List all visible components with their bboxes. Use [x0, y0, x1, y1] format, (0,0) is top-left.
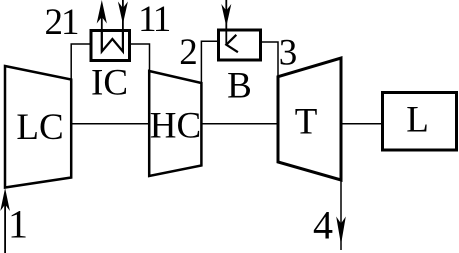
burner nozzle mark — [226, 35, 238, 52]
svg-text:2: 2 — [179, 32, 198, 73]
IC water out arrow (21) — [101, 14, 103, 51]
fuel arrow into B — [225, 0, 227, 29]
wire IC to HC — [131, 44, 150, 71]
shaft wire T-L — [341, 123, 381, 125]
svg-text:B: B — [227, 66, 252, 107]
IC coil W — [102, 31, 123, 52]
turbine T — [278, 58, 341, 180]
svg-text:1: 1 — [8, 202, 28, 247]
svg-text:HC: HC — [150, 106, 201, 147]
load L box — [383, 93, 457, 151]
svg-text:4: 4 — [313, 203, 333, 248]
svg-text:IC: IC — [91, 63, 128, 104]
wire B to T (3) — [262, 42, 278, 77]
compressor HC — [149, 71, 201, 176]
shaft wire LC-HC — [71, 123, 149, 125]
compressor LC — [5, 66, 71, 188]
inlet arrow 1 — [4, 200, 6, 253]
IC water in arrow (11) — [122, 0, 124, 51]
intercooler IC box — [91, 31, 130, 61]
svg-text:11: 11 — [138, 0, 170, 40]
wire LC to IC — [71, 44, 89, 80]
svg-text:LC: LC — [16, 107, 63, 148]
svg-text:3: 3 — [279, 33, 298, 74]
burner B box — [219, 30, 261, 60]
exhaust wire 4 — [340, 180, 342, 250]
svg-text:L: L — [406, 100, 429, 141]
wire HC to B (2) — [201, 41, 217, 83]
svg-text:T: T — [295, 102, 318, 143]
svg-text:21: 21 — [45, 2, 79, 43]
shaft wire HC-T — [201, 123, 278, 125]
